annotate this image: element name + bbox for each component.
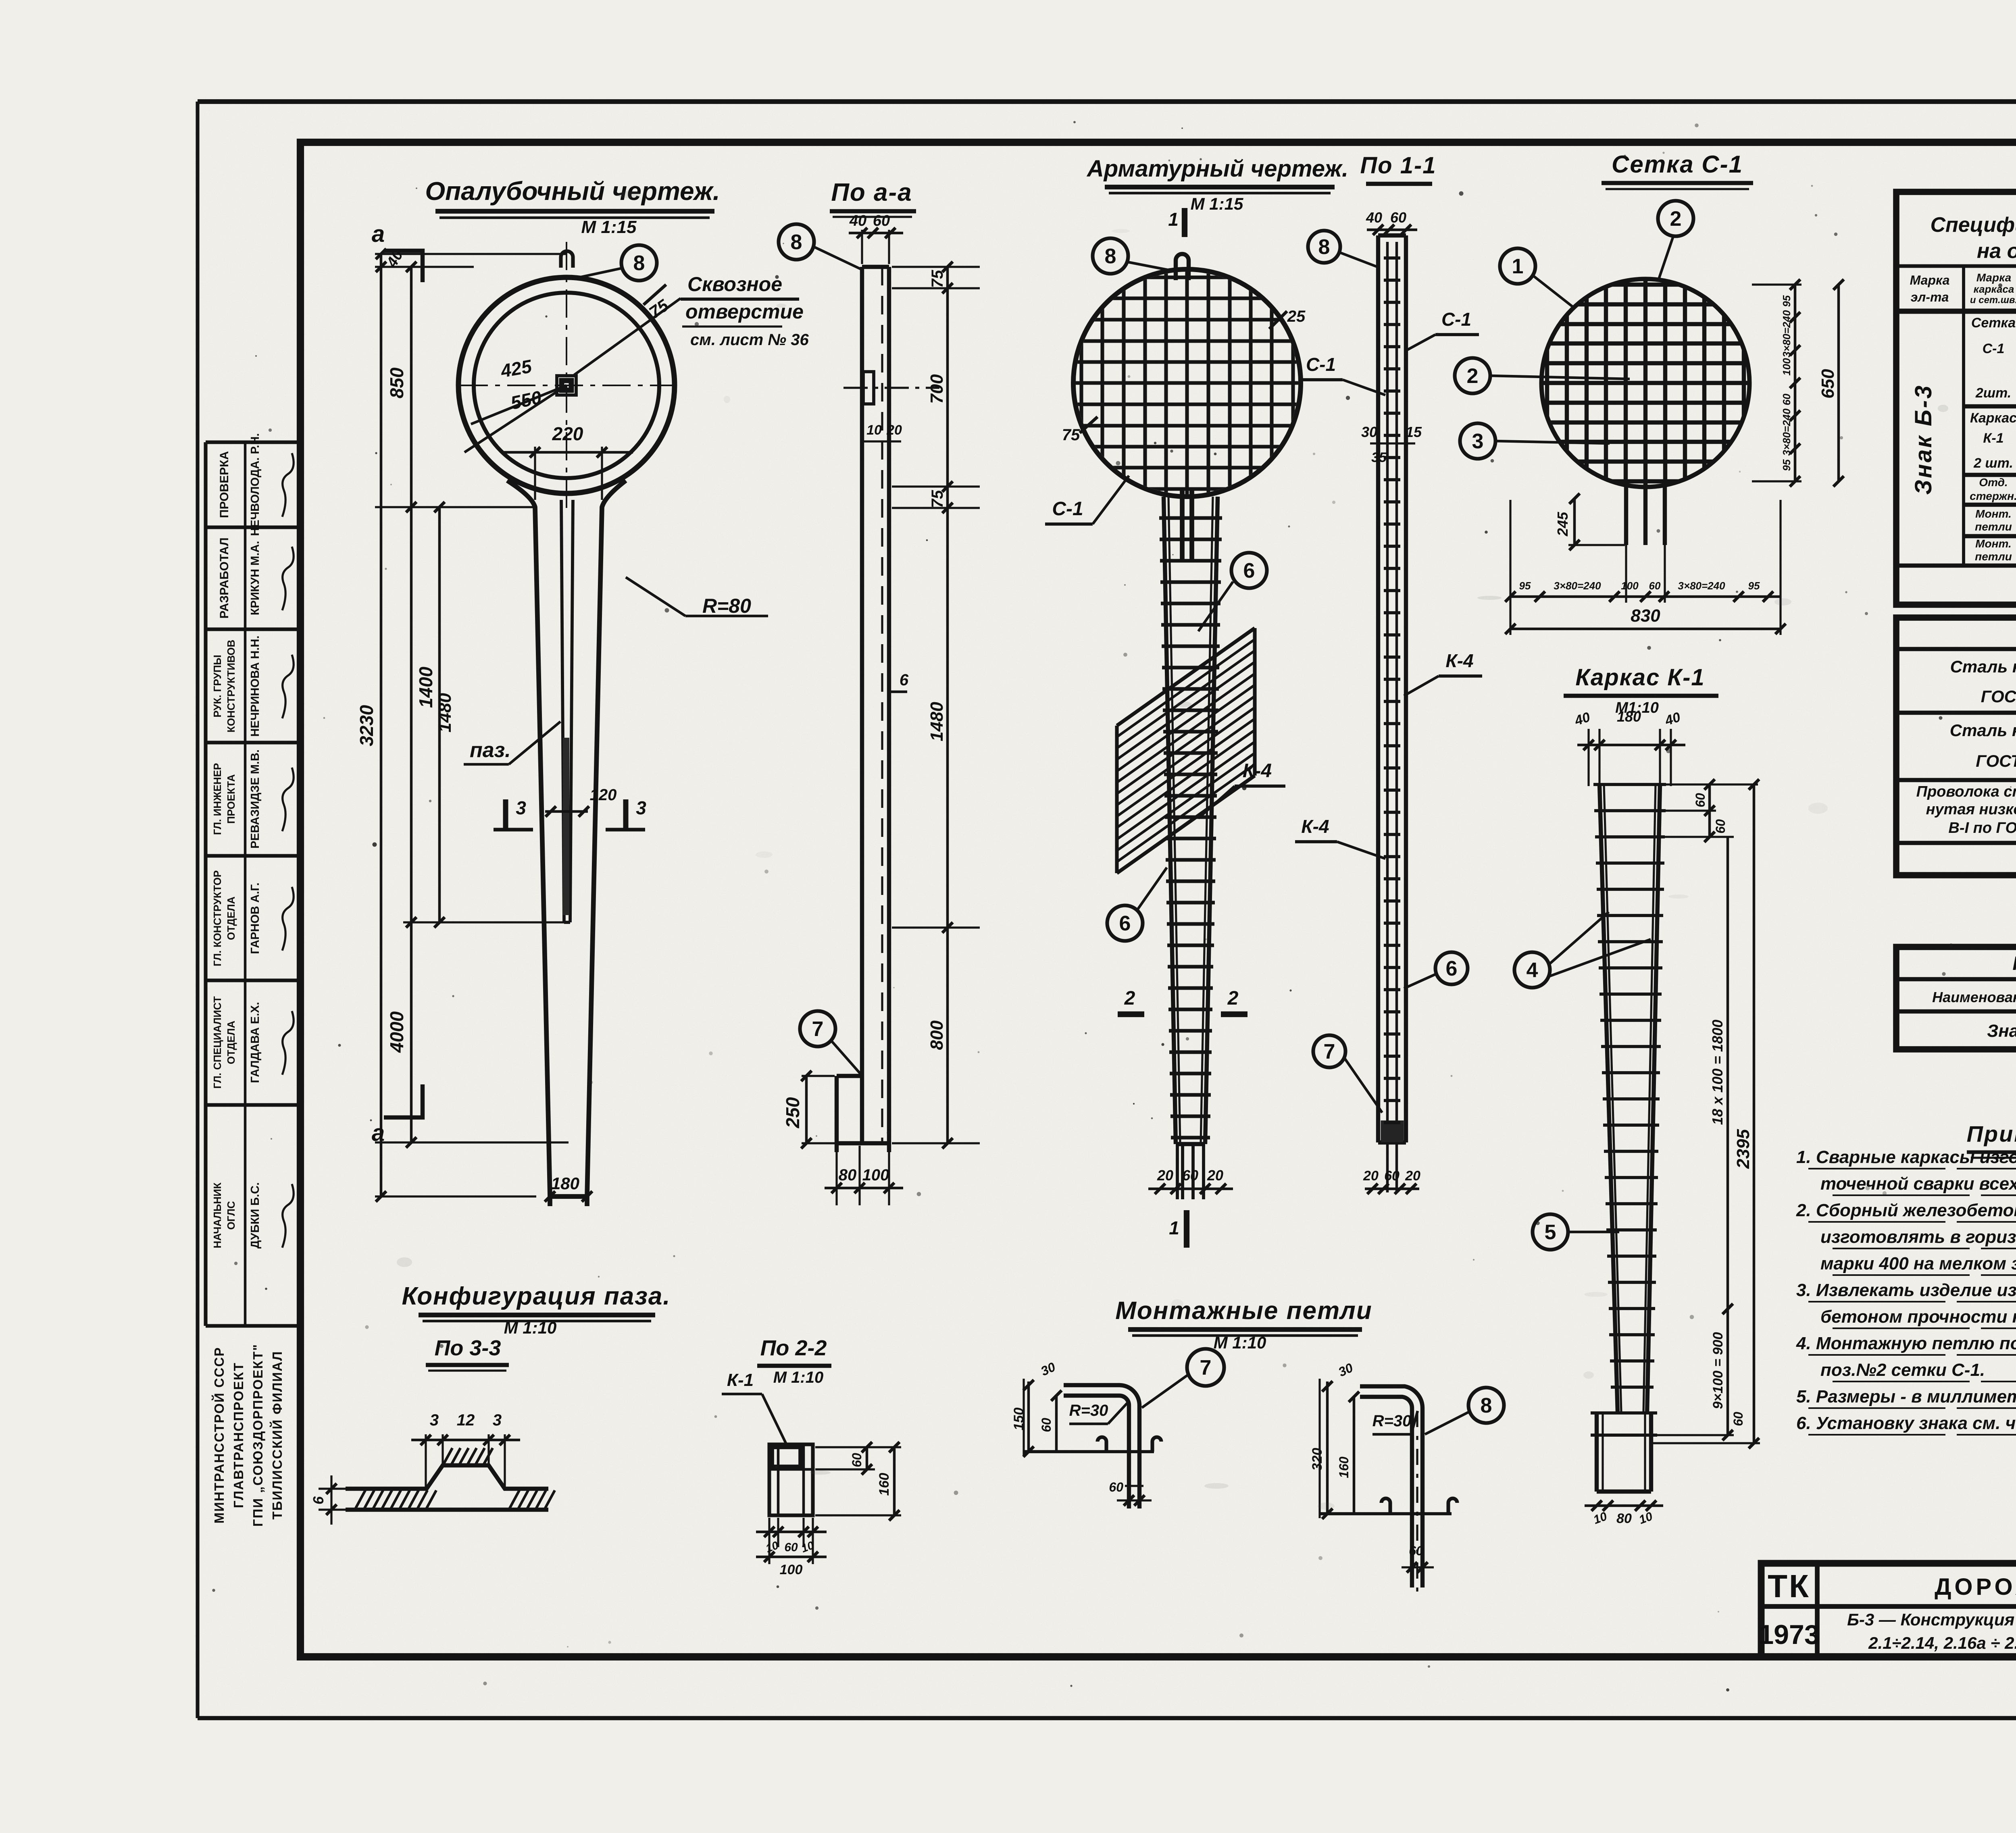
formwork view title xyxy=(425,177,720,237)
radius dim 550 xyxy=(464,385,566,452)
mesh S-1 right dimension chain xyxy=(1752,279,1844,487)
reinforcement callout 6 upper xyxy=(1198,553,1267,631)
outer sheet border xyxy=(198,102,2016,1718)
mounting loop pos 7 xyxy=(1011,1359,1161,1508)
section 1-1 callout 6 xyxy=(1404,952,1468,988)
section 1-1 bottom dims 20 60 20 xyxy=(1363,1168,1420,1194)
cage K-1 callout 4 xyxy=(1514,912,1651,988)
section 2-2 title xyxy=(757,1336,831,1386)
label K-4 on cage xyxy=(1198,760,1285,818)
note through hole (skvoznoe otverstie) xyxy=(574,273,809,375)
reinforcement view title xyxy=(1086,156,1348,213)
groove config title xyxy=(402,1282,671,1337)
spec table grid xyxy=(1896,192,2016,605)
section 3-3 subtitle xyxy=(426,1336,509,1371)
section a-a right dimension chain xyxy=(892,262,980,1148)
formwork groove (paz) slot xyxy=(561,500,573,922)
loop 8 callout xyxy=(1425,1388,1504,1434)
mesh S-1 bottom dimension chain xyxy=(1505,500,1786,635)
label paz with leader xyxy=(464,722,560,764)
section a-a callout 7 xyxy=(800,1011,861,1075)
section a-a mark 6 xyxy=(887,671,909,692)
radius dim 425 xyxy=(471,356,566,424)
section a-a post profile xyxy=(837,267,889,1152)
reinforcement post cage K-4 with rungs xyxy=(1159,488,1222,1199)
section 1-1 mid dims 30 15 xyxy=(1361,424,1422,465)
mesh dim 75 xyxy=(1062,417,1098,444)
spec table data xyxy=(1910,315,2016,595)
section 1-1 label K-4 right xyxy=(1404,650,1482,696)
mesh S-1 dim 245 xyxy=(1554,493,1625,550)
mesh S-1 callout 1 xyxy=(1500,248,1573,307)
mesh S-1 callout 3 left xyxy=(1460,423,1610,459)
inner drawing frame xyxy=(300,142,2016,1657)
formwork sign disc (double ring) xyxy=(458,242,675,508)
section 2-2 square section xyxy=(769,1444,813,1515)
section a-a title xyxy=(830,179,916,217)
bottom-right title block xyxy=(1758,1563,2016,1657)
reinforcement section mark 1 bottom xyxy=(1169,1210,1187,1248)
reinforcement top loop pos8 xyxy=(1176,254,1189,280)
groove profile section 3-3 xyxy=(346,1448,555,1510)
institution name block xyxy=(211,1344,285,1527)
reinforcement bottom dims 20 60 20 xyxy=(1148,1167,1233,1194)
section mark a bottom xyxy=(372,1084,423,1146)
mesh S-1 callout 2 left xyxy=(1455,358,1630,393)
reinforcement callout 6 lower xyxy=(1107,868,1167,941)
ring thickness dim 75 xyxy=(644,285,672,322)
section 2-2 cut marks xyxy=(1118,988,1248,1014)
cage K-1 ladder xyxy=(1591,784,1666,1492)
dim 220 post top width xyxy=(504,423,633,500)
hatched weld zone band xyxy=(1117,628,1255,873)
section 2-2 dimension chains xyxy=(756,1442,901,1577)
section a-a through hole xyxy=(843,372,939,404)
section 2-2 K-1 label xyxy=(722,1370,787,1446)
formwork left dimension chain xyxy=(356,247,569,1202)
section 1-1 callout 7 xyxy=(1313,1035,1382,1113)
section 1-1 title xyxy=(1360,152,1436,184)
mounting loop pos 8 xyxy=(1310,1360,1457,1592)
indicators per element table xyxy=(1896,947,2016,1049)
reinforcement callout 8 top xyxy=(1093,238,1173,274)
section a-a dim 250 base xyxy=(782,1071,835,1148)
section 1-1 callout 8 xyxy=(1308,231,1377,267)
section mark a top xyxy=(372,221,423,282)
notes (primechaniya) xyxy=(1796,1121,2016,1435)
section 1-1 label K-4 left xyxy=(1295,816,1385,859)
mounting loops title xyxy=(1115,1297,1372,1352)
cage K-1 callout 5 xyxy=(1533,1214,1619,1250)
section 1-1 top dims 40 60 xyxy=(1366,209,1417,235)
section a-a top dims 40 60 xyxy=(849,212,903,264)
title stamp column with signatures xyxy=(206,433,300,1326)
section a-a callout 8 xyxy=(779,224,861,269)
radius label R80 xyxy=(626,577,768,617)
cage K-1 right dimension chain xyxy=(1653,779,1760,1448)
section 1-1 bar with mesh rungs xyxy=(1378,235,1406,1192)
formwork loop callout 8 xyxy=(572,245,657,281)
loop 7 callout xyxy=(1142,1349,1224,1408)
groove profile dims 3 12 3 xyxy=(310,1411,520,1525)
scan noise overlay xyxy=(0,0,0,0)
section a-a bottom dims 80 100 xyxy=(825,1146,903,1205)
formwork tapered post outline xyxy=(507,481,626,1206)
section 3-3 cut marks on post xyxy=(494,786,646,830)
cage K-1 top dims 40 180 40 xyxy=(1572,708,1685,786)
mesh S-1 bottom bars xyxy=(1626,482,1665,545)
section 1-1 label S-1 right xyxy=(1407,309,1479,350)
formwork lifting loop stub xyxy=(561,251,573,268)
rebar selection table xyxy=(1896,618,2016,875)
mesh S-1 callout 2 top xyxy=(1658,201,1693,281)
section a-a small dims 10 20 xyxy=(863,422,902,441)
reinforcement section mark 1 top xyxy=(1168,208,1185,237)
spec table headers xyxy=(1910,204,2016,306)
scan dirt specks xyxy=(210,121,2016,1692)
mesh S-1 title xyxy=(1602,151,1753,189)
cage K-1 bottom dims xyxy=(1585,1500,1663,1527)
label S-1 on disc xyxy=(1045,476,1129,524)
mesh dim 25 xyxy=(1269,308,1306,329)
formwork centre square hole xyxy=(557,376,576,395)
cage K-1 title xyxy=(1564,664,1718,716)
dim 180 post bottom xyxy=(545,1174,592,1202)
section 1-1 label S-1 left xyxy=(1300,354,1385,395)
